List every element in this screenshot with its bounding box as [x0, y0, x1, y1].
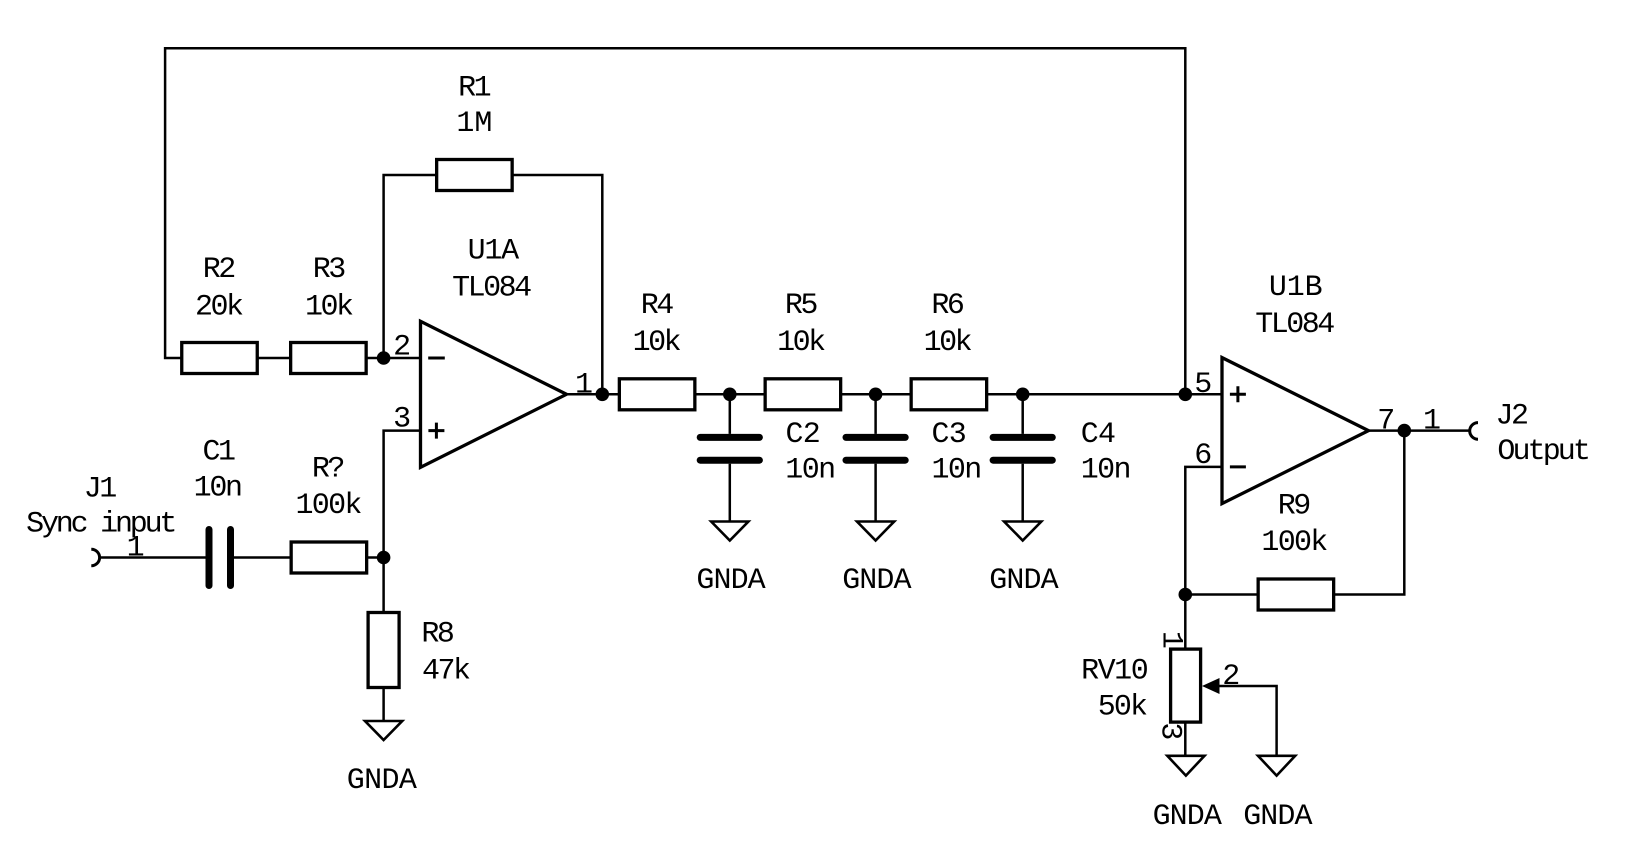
- wire U1A output to R4: [567, 393, 620, 396]
- wire RV10 wiper to ground: [1220, 686, 1277, 756]
- svg-text:10n: 10n: [1081, 454, 1130, 488]
- wire node2 up to R1 left: [384, 175, 437, 358]
- wire C4 bottom stem: [1021, 464, 1024, 522]
- resistor R9 body: [1258, 579, 1334, 610]
- svg-text:10n: 10n: [194, 472, 241, 506]
- wire R6 to U1B pin 5: [986, 393, 1222, 396]
- junction node A (R?/R8/pin3): [377, 551, 391, 565]
- svg-text:6: 6: [1194, 439, 1211, 473]
- junction U1A output node: [596, 388, 610, 402]
- wire C4 top stem: [1021, 394, 1024, 434]
- wire node A to R8: [382, 558, 385, 613]
- svg-text:U1B: U1B: [1269, 271, 1323, 305]
- wire R3 to inverting node and pin 2: [366, 357, 420, 360]
- capacitor C1 right plate: [227, 530, 234, 586]
- resistor R5 body: [765, 379, 841, 410]
- svg-text:1M: 1M: [456, 107, 492, 141]
- ground GNDA under RV10: [1167, 756, 1204, 776]
- wire feedback top loop: [165, 48, 1185, 394]
- svg-text:50k: 50k: [1098, 690, 1147, 724]
- svg-text:10n: 10n: [932, 454, 981, 488]
- svg-text:3: 3: [393, 402, 410, 436]
- svg-text:GNDA: GNDA: [989, 564, 1058, 598]
- svg-text:GNDA: GNDA: [1243, 800, 1312, 834]
- svg-text:GNDA: GNDA: [696, 564, 765, 598]
- op-amp U1A triangle: [421, 321, 567, 467]
- wire J1 to C1: [100, 556, 206, 559]
- wire C2 bottom stem: [729, 464, 732, 522]
- svg-text:Sync input: Sync input: [26, 508, 174, 542]
- wire U1B output to J2: [1369, 429, 1470, 432]
- svg-text:C1: C1: [202, 435, 235, 469]
- resistor R1 body: [437, 160, 513, 191]
- wire R2-R3: [257, 357, 290, 360]
- svg-text:3: 3: [1153, 722, 1187, 739]
- wire R? to node A: [367, 556, 384, 559]
- svg-text:20k: 20k: [195, 291, 243, 325]
- junction R9/RV10 feedback node: [1179, 588, 1193, 602]
- wire feedback node to RV10 pin 1: [1184, 595, 1187, 649]
- resistor R4 body: [619, 379, 695, 410]
- capacitor C3 bottom plate: [846, 457, 905, 464]
- ground GNDA under C4: [1004, 522, 1041, 541]
- svg-text:R3: R3: [313, 253, 346, 287]
- resistor R? body: [291, 542, 367, 573]
- wire R8 to ground: [382, 688, 385, 722]
- svg-text:10k: 10k: [777, 326, 825, 360]
- junction R6 / C4 node: [1016, 388, 1030, 402]
- svg-text:1: 1: [1154, 631, 1188, 648]
- svg-text:R6: R6: [931, 289, 964, 323]
- capacitor C2 top plate: [700, 434, 759, 441]
- svg-text:GNDA: GNDA: [347, 764, 417, 798]
- capacitor C2 bottom plate: [700, 457, 759, 464]
- wire pin 3 to input node: [384, 431, 421, 558]
- svg-text:Output: Output: [1497, 435, 1588, 469]
- wire C3 bottom stem: [874, 464, 877, 522]
- wire R9 left to feedback node: [1185, 593, 1258, 596]
- connector J2 pin symbol: [1470, 423, 1478, 440]
- capacitor C1 left plate: [206, 530, 213, 586]
- op-amp U1B plus sign: [1230, 386, 1246, 402]
- svg-text:2: 2: [1222, 660, 1238, 694]
- op-amp U1B triangle: [1222, 358, 1369, 504]
- resistor R2 body: [182, 343, 258, 374]
- svg-text:100k: 100k: [1261, 526, 1327, 560]
- svg-text:R9: R9: [1278, 489, 1310, 523]
- op-amp U1A minus sign: [428, 357, 445, 360]
- wire RV10 pin 3 to ground: [1184, 723, 1187, 756]
- svg-text:7: 7: [1377, 405, 1393, 439]
- svg-text:TL084: TL084: [452, 272, 531, 306]
- svg-text:GNDA: GNDA: [1153, 800, 1222, 834]
- svg-text:10n: 10n: [785, 454, 834, 488]
- potentiometer RV10 body: [1171, 649, 1201, 722]
- junction U1B output node: [1398, 424, 1412, 438]
- svg-text:10k: 10k: [305, 291, 353, 325]
- resistor R3 body: [291, 343, 367, 374]
- svg-text:2: 2: [393, 331, 409, 365]
- svg-text:R1: R1: [458, 72, 491, 106]
- svg-text:1: 1: [127, 532, 144, 566]
- wire pin 6 to feedback node: [1185, 467, 1222, 595]
- svg-text:5: 5: [1194, 368, 1211, 402]
- connector J1 pin symbol: [91, 549, 99, 566]
- svg-text:10k: 10k: [924, 326, 972, 360]
- svg-text:47k: 47k: [422, 655, 470, 689]
- wire C1 to R?: [234, 556, 291, 559]
- svg-text:RV10: RV10: [1081, 655, 1148, 689]
- wire C3 top stem: [874, 394, 877, 434]
- potentiometer RV10 wiper arrow: [1202, 678, 1220, 694]
- ground GNDA under RV10 wiper: [1258, 756, 1295, 776]
- resistor R6 body: [911, 379, 987, 410]
- op-amp U1A plus sign: [428, 423, 444, 439]
- svg-text:100k: 100k: [295, 489, 361, 523]
- wire C2 top stem: [729, 394, 732, 434]
- resistor R8 body: [368, 613, 399, 688]
- svg-text:10k: 10k: [633, 326, 681, 360]
- svg-text:R5: R5: [785, 289, 818, 323]
- capacitor C4 bottom plate: [993, 457, 1052, 464]
- junction R5-R6 / C3 node: [869, 388, 883, 402]
- op-amp U1B minus sign: [1230, 465, 1246, 468]
- junction U1B pin 5 node: [1179, 388, 1193, 402]
- svg-text:C4: C4: [1081, 418, 1116, 452]
- svg-text:R2: R2: [203, 253, 235, 287]
- wire R5 to R6: [840, 393, 911, 396]
- wire output node down to R9 right: [1334, 431, 1405, 595]
- svg-text:1: 1: [1423, 405, 1440, 439]
- svg-text:R4: R4: [641, 289, 674, 323]
- ground GNDA under C3: [857, 522, 894, 541]
- junction R4-R5 / C2 node: [723, 388, 737, 402]
- svg-text:1: 1: [575, 368, 592, 402]
- svg-text:U1A: U1A: [468, 235, 520, 269]
- svg-text:GNDA: GNDA: [842, 564, 911, 598]
- svg-text:J1: J1: [84, 473, 117, 507]
- svg-text:J2: J2: [1496, 400, 1528, 434]
- wire R4 to R5: [695, 393, 765, 396]
- svg-text:C2: C2: [786, 418, 821, 452]
- junction inverting input node: [377, 351, 391, 365]
- ground GNDA under C2: [711, 522, 748, 541]
- capacitor C4 top plate: [993, 434, 1052, 441]
- svg-text:TL084: TL084: [1255, 308, 1334, 342]
- ground GNDA under R8: [365, 721, 402, 740]
- svg-text:R8: R8: [421, 618, 454, 652]
- svg-text:C3: C3: [932, 418, 967, 452]
- wire R1 right down to output node: [512, 175, 602, 394]
- capacitor C3 top plate: [846, 434, 905, 441]
- svg-text:R?: R?: [312, 453, 344, 487]
